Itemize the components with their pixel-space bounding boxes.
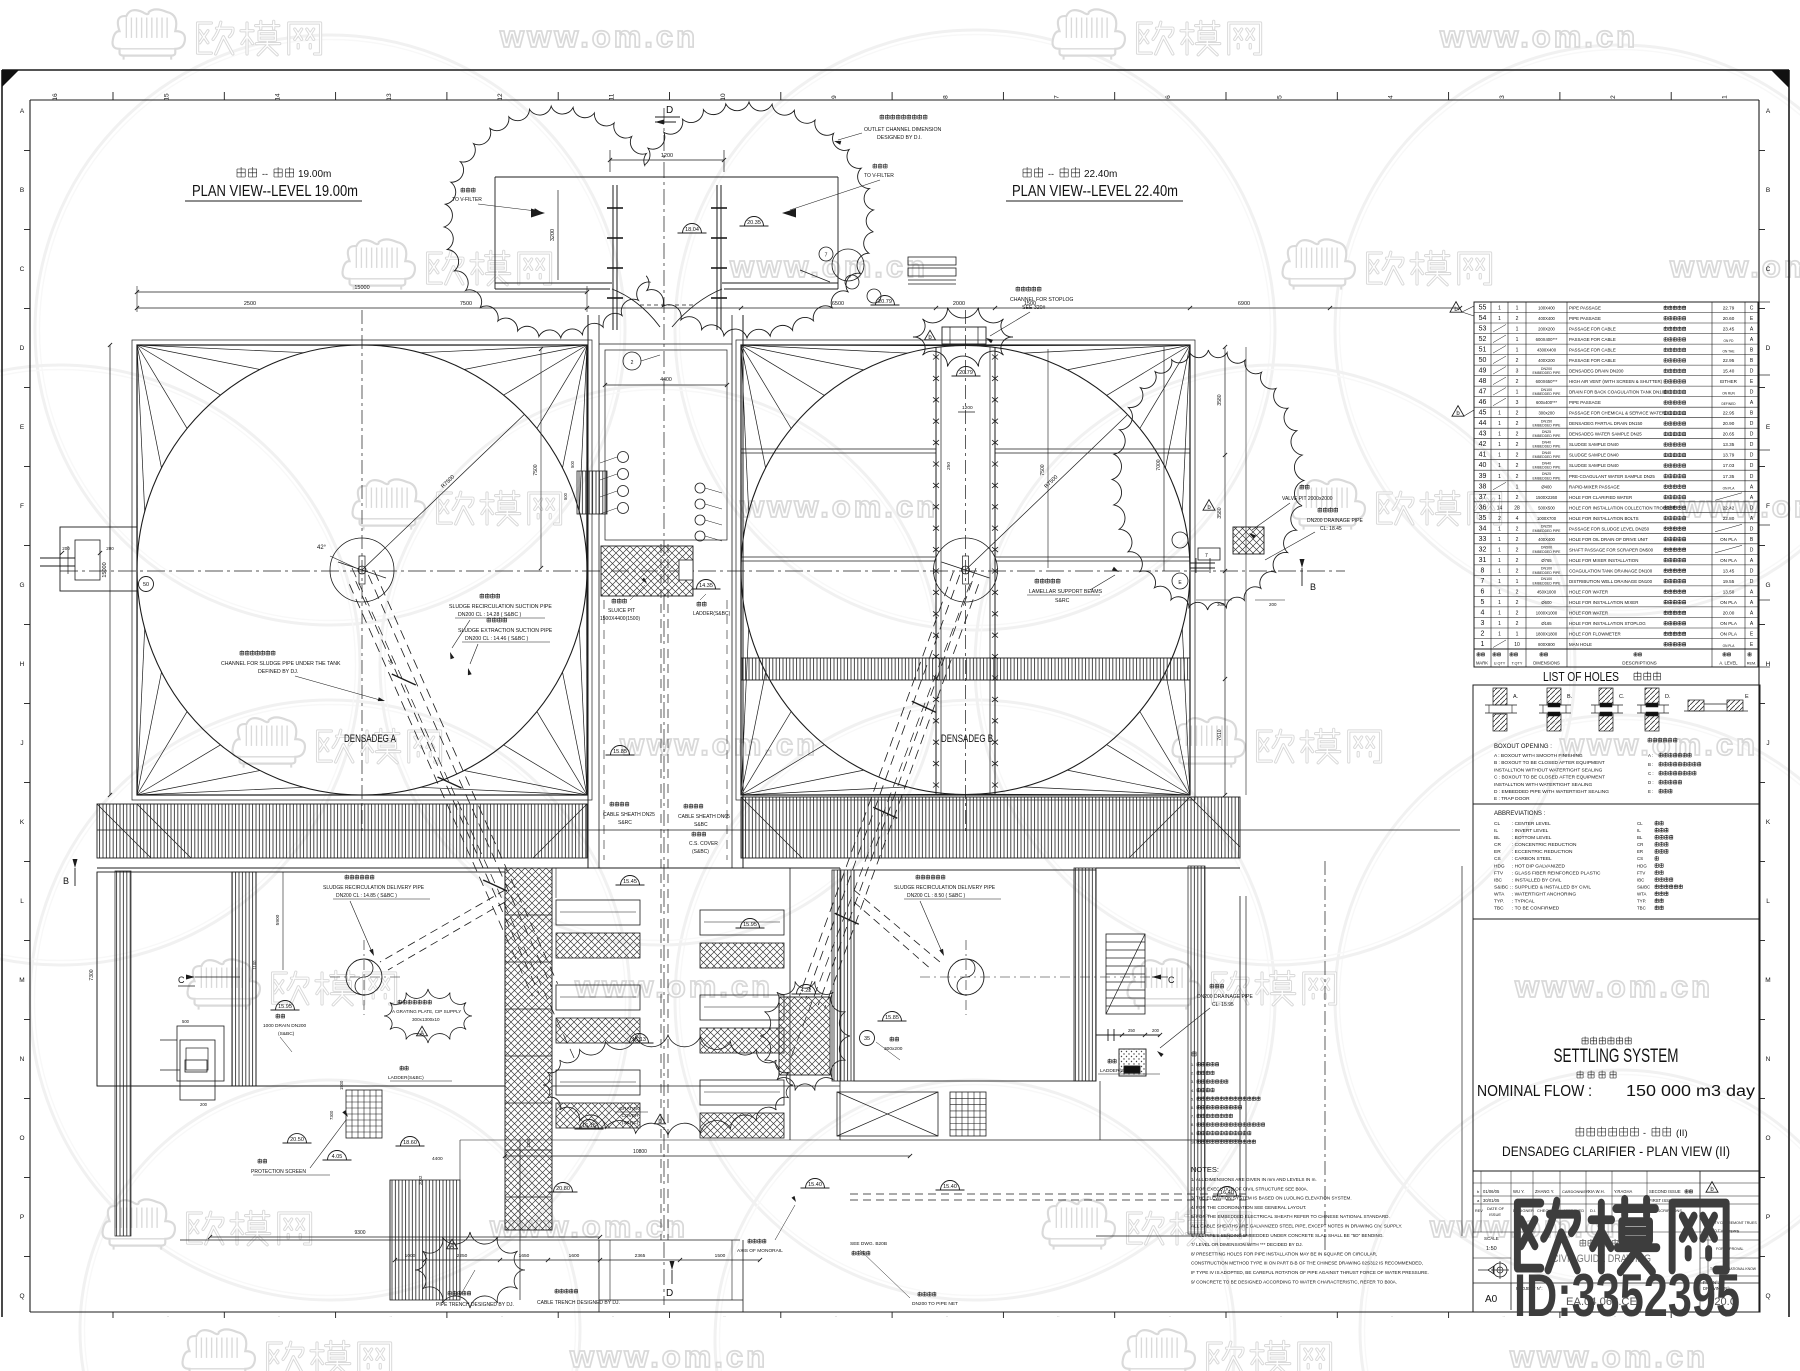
sluice pit label: [600, 578, 647, 623]
svg-text:D.: D.: [1665, 694, 1671, 700]
circled 50 marker: [139, 577, 154, 592]
svg-text:35: 35: [1479, 515, 1487, 522]
svg-text:2: 2: [1516, 411, 1519, 417]
valve pit label: [1249, 484, 1333, 538]
tank B internal channel: [933, 347, 998, 795]
svg-text:5.: 5.: [1191, 1097, 1194, 1101]
svg-text:www.om.cn: www.om.cn: [619, 727, 818, 762]
svg-text:E: E: [20, 424, 25, 431]
svg-text:22.79: 22.79: [1723, 306, 1735, 311]
svg-text:3580: 3580: [1217, 394, 1223, 405]
dn200 to pipe net note: [860, 1250, 958, 1307]
svg-text:1500: 1500: [715, 1253, 726, 1259]
svg-text:C: C: [1766, 266, 1771, 273]
svg-text:..: ..: [1502, 1313, 1504, 1318]
svg-text:16: 16: [52, 93, 59, 101]
svg-text:A. LEVEL: A. LEVEL: [1719, 661, 1738, 666]
svg-text:7/ LEVEL OR DIMENSION WITH **: 7/ LEVEL OR DIMENSION WITH *** DECIDED B…: [1191, 1242, 1303, 1247]
svg-text:REV: REV: [1475, 1209, 1483, 1213]
svg-text:1: 1: [1498, 432, 1501, 438]
svg-text:4/ FOR THE COORDINATION SEE G: 4/ FOR THE COORDINATION SEE GENERAL LAYO…: [1191, 1205, 1306, 1210]
svg-text:7500: 7500: [460, 301, 472, 307]
section markers C: [178, 975, 1175, 987]
svg-text:L: L: [20, 898, 24, 905]
svg-text:C: C: [178, 975, 185, 985]
svg-text:D.I.: D.I.: [1590, 1208, 1596, 1213]
svg-text:CL: CL: [1637, 821, 1643, 826]
central bottom markers: [283, 876, 1242, 1197]
svg-text:2: 2: [1516, 379, 1519, 385]
svg-text:1000X1000: 1000X1000: [1536, 611, 1558, 616]
svg-text:2.: 2.: [1191, 1072, 1194, 1076]
svg-text:13.35: 13.35: [1723, 442, 1735, 447]
dashed pipe into left room: [380, 890, 505, 970]
svg-text:D: D: [666, 105, 673, 116]
svg-text:13.45: 13.45: [1723, 568, 1735, 573]
x-box right: [837, 1092, 938, 1136]
svg-text:1:50: 1:50: [1486, 1246, 1497, 1252]
svg-text:2000: 2000: [953, 301, 965, 307]
svg-text:D: D: [1750, 474, 1754, 480]
svg-text:PASSAGE FOR CABLE: PASSAGE FOR CABLE: [1569, 327, 1616, 332]
top ruler ticks and numbers: [52, 92, 1729, 101]
svg-text:EMBEDDED PIPE: EMBEDDED PIPE: [1533, 392, 1562, 396]
svg-text:20.90: 20.90: [1723, 421, 1735, 426]
right pump room outline: [854, 870, 1096, 1081]
svg-text:INSTALLTION WITH WATERTIGHT SE: INSTALLTION WITH WATERTIGHT SEALING: [1494, 782, 1593, 788]
svg-text:35: 35: [864, 1036, 870, 1042]
svg-text:SECOND ISSUE: SECOND ISSUE: [1649, 1189, 1681, 1194]
svg-text:HDG: HDG: [1494, 863, 1505, 869]
svg-text:500: 500: [570, 460, 575, 468]
svg-text:9/ CONCRETE TO BE DESIGNED AC: 9/ CONCRETE TO BE DESIGNED ACCORDING TO …: [1191, 1279, 1397, 1284]
right pump yin-yang: [920, 940, 1160, 1015]
notes english list: [1191, 1165, 1429, 1284]
pipe trench designed note: [436, 1270, 514, 1308]
svg-text:55: 55: [1479, 305, 1487, 312]
svg-text:14.35: 14.35: [699, 583, 713, 589]
svg-text:15.85: 15.85: [613, 749, 627, 755]
svg-text:ISSUE: ISSUE: [1489, 1212, 1501, 1217]
tank B circle: [741, 346, 1190, 795]
cloud small circles detail: [800, 247, 956, 303]
svg-text:O: O: [19, 1135, 24, 1142]
svg-text:22.95: 22.95: [1723, 358, 1735, 363]
svg-text:PROTECTION SCREEN: PROTECTION SCREEN: [251, 1169, 306, 1175]
marker 15.85 right room: [878, 1012, 907, 1022]
svg-text:150 000 m3 day: 150 000 m3 day: [1626, 1083, 1755, 1100]
svg-text:CARDONNIER: CARDONNIER: [1562, 1189, 1589, 1194]
svg-text:300x1300x10: 300x1300x10: [412, 1017, 440, 1022]
svg-text:U.QTY: U.QTY: [1494, 662, 1506, 666]
tank A sludge pipe dashed bundle: [349, 568, 575, 1060]
svg-text:7500: 7500: [1040, 464, 1046, 475]
svg-text:www.om.cn: www.om.cn: [1439, 19, 1638, 54]
svg-text:: GLASS FIBER REINFORCED PLAS: : GLASS FIBER REINFORCED PLASTIC: [1512, 870, 1601, 876]
svg-text:IL: IL: [1637, 828, 1641, 833]
svg-text:48: 48: [1479, 378, 1487, 385]
dn200 drainage pipe note bottom: [1157, 984, 1254, 1057]
svg-text:ZHANG Y.: ZHANG Y.: [1535, 1189, 1554, 1194]
svg-text:PIPE PASSAGE: PIPE PASSAGE: [1569, 400, 1601, 405]
corner triangle top-left: [2, 70, 19, 87]
svg-text:www.om.cn: www.om.cn: [729, 249, 928, 284]
svg-text:8: 8: [942, 95, 949, 99]
svg-text:ON PLA: ON PLA: [1720, 558, 1738, 563]
svg-text:--: --: [262, 169, 268, 179]
svg-text:ON PLA: ON PLA: [1723, 644, 1736, 648]
svg-text:20.35: 20.35: [747, 220, 761, 226]
corner triangle top-right: [1771, 70, 1789, 88]
svg-text:LIST OF HOLES: LIST OF HOLES: [1543, 670, 1619, 684]
svg-text:: INVERT LEVEL: : INVERT LEVEL: [1512, 828, 1549, 834]
svg-text:DENSADEG WATER SAMPLE DN25: DENSADEG WATER SAMPLE DN25: [1569, 432, 1642, 437]
svg-text:NOMINAL FLOW :: NOMINAL FLOW :: [1477, 1083, 1592, 1100]
svg-text:www.om.cn: www.om.cn: [1509, 1339, 1708, 1371]
svg-text:46: 46: [1479, 399, 1487, 406]
svg-text:42°: 42°: [317, 545, 327, 551]
svg-text:3: 3: [1516, 400, 1519, 406]
svg-text:42: 42: [1479, 441, 1487, 448]
svg-text:300x200: 300x200: [1538, 411, 1555, 416]
svg-text:F: F: [1766, 503, 1770, 510]
svg-text:L: L: [1766, 898, 1770, 905]
svg-text:400X400: 400X400: [1538, 316, 1555, 321]
svg-text:7.: 7.: [1191, 1115, 1194, 1119]
see dwg b20b note: [850, 1241, 887, 1255]
svg-text:30/01/05: 30/01/05: [1483, 1198, 1500, 1203]
svg-text:1: 1: [1516, 337, 1519, 343]
grating cover label: [615, 1106, 666, 1126]
svg-text:B: B: [63, 876, 69, 886]
svg-text:250: 250: [1128, 1028, 1136, 1033]
svg-text:HOLE FOR OIL DRAIN OF DRIVE UN: HOLE FOR OIL DRAIN OF DRIVE UNIT: [1569, 537, 1648, 542]
svg-text:1650: 1650: [519, 1253, 530, 1259]
svg-text:18.04: 18.04: [685, 227, 699, 233]
svg-text:K: K: [1766, 819, 1771, 826]
channel extension walls bottom: [556, 868, 790, 1140]
svg-text:22.42: 22.42: [1723, 505, 1735, 510]
svg-text:LAMELLAR SUPPORT BEAMS: LAMELLAR SUPPORT BEAMS: [1029, 589, 1103, 595]
svg-text:BOXOUT OPENING :: BOXOUT OPENING :: [1494, 744, 1552, 750]
svg-text:1: 1: [1498, 558, 1501, 564]
projection logo: [1478, 1261, 1509, 1279]
svg-text:..: ..: [835, 1313, 837, 1318]
svg-text:TO V-FILTER: TO V-FILTER: [864, 173, 894, 179]
bottom center cloud: [543, 1035, 793, 1135]
triangle marker right cloud: [1203, 500, 1215, 512]
svg-text:4.05: 4.05: [332, 1154, 343, 1160]
svg-text:FOR APPROVAL: FOR APPROVAL: [1716, 1247, 1744, 1251]
left low structure: [160, 1040, 215, 1107]
svg-text:14: 14: [1497, 505, 1503, 511]
svg-text:DIMENSIONS: DIMENSIONS: [1533, 661, 1560, 666]
svg-text:D: D: [1750, 579, 1754, 585]
svg-text:SLUDGE RECIRCULATION SUCTION P: SLUDGE RECIRCULATION SUCTION PIPE: [449, 604, 552, 610]
list of holes caption: [1543, 670, 1661, 684]
svg-text:DENSADEG CLARIFIER - PLAN VI: DENSADEG CLARIFIER - PLAN VIEW (II): [1502, 1144, 1730, 1159]
svg-text:16.15: 16.15: [582, 1123, 596, 1129]
svg-text:37: 37: [1479, 494, 1487, 501]
svg-text:HOLE FOR CLARIFIED WATER: HOLE FOR CLARIFIED WATER: [1569, 495, 1632, 500]
svg-text:J: J: [1766, 740, 1769, 747]
svg-text:13.79: 13.79: [1723, 453, 1735, 458]
svg-text:500X500: 500X500: [1538, 505, 1555, 510]
svg-text:1800X1800: 1800X1800: [1536, 632, 1558, 637]
svg-text:J: J: [20, 740, 23, 747]
svg-text:A :: A :: [1648, 753, 1653, 758]
svg-text:1500: 1500: [1024, 301, 1036, 307]
svg-text:SLUICE PIT: SLUICE PIT: [608, 608, 635, 614]
svg-text:Ø765: Ø765: [1541, 558, 1552, 563]
svg-text:A: A: [450, 1244, 454, 1250]
section marker D top: [655, 105, 680, 125]
svg-text:43: 43: [1479, 431, 1487, 438]
svg-text:..: ..: [389, 1313, 391, 1318]
big id watermark omwang: [1517, 1199, 1726, 1272]
left wall hatch strip: [115, 871, 131, 1236]
svg-text:3580: 3580: [1217, 507, 1223, 518]
svg-text:SHAFT PASSAGE FOR SCRAPER DN50: SHAFT PASSAGE FOR SCRAPER DN500: [1569, 547, 1654, 552]
svg-text:20.60: 20.60: [1723, 316, 1735, 321]
svg-text:2: 2: [1516, 474, 1519, 480]
svg-text:EMBEDDED PIPE: EMBEDDED PIPE: [1533, 571, 1562, 575]
tank B square: [736, 340, 1195, 800]
svg-text:10.: 10.: [1191, 1140, 1196, 1144]
svg-text:C: C: [20, 266, 25, 273]
svg-text:1: 1: [1498, 568, 1501, 574]
svg-text:..: ..: [1057, 1313, 1059, 1318]
dashed pipe into right room: [854, 890, 940, 970]
svg-text:..: ..: [612, 1313, 614, 1318]
svg-text:www.om.cn: www.om.cn: [1679, 489, 1800, 524]
svg-text:3200: 3200: [550, 229, 556, 241]
svg-text:H: H: [20, 661, 25, 668]
channel pipe circles right cluster: [695, 483, 722, 541]
revision table: [1473, 1171, 1760, 1232]
svg-text:C: C: [1168, 975, 1175, 985]
top revision cloud: [444, 102, 873, 338]
svg-text:15.40: 15.40: [808, 1182, 822, 1188]
svg-text:www.om.cn: www.om.cn: [1559, 727, 1758, 762]
tank A center axes: [361, 310, 363, 835]
svg-text:34: 34: [1479, 525, 1487, 532]
svg-text:: TYPICAL: : TYPICAL: [1512, 899, 1535, 905]
svg-text:www.om.cn: www.om.cn: [574, 969, 773, 1004]
svg-text:PASSAGE FOR CHEMICAL & SERVICE: PASSAGE FOR CHEMICAL & SERVICE WATER: [1569, 411, 1665, 416]
svg-text:ABBREVIATIONS :: ABBREVIATIONS :: [1494, 811, 1546, 817]
black flow arrow left: [531, 209, 545, 218]
table header row: [1474, 652, 1758, 667]
svg-text:19.55: 19.55: [1723, 579, 1735, 584]
svg-text:2/ FOR EXECUTION OF CIVIL STR: 2/ FOR EXECUTION OF CIVIL STRUCTURE SEE …: [1191, 1186, 1308, 1191]
svg-text:ON FD: ON FD: [1724, 339, 1735, 343]
svg-text:M: M: [19, 977, 24, 984]
bottom dim row: [393, 1253, 762, 1262]
svg-text:2: 2: [1516, 600, 1519, 606]
channel top box and dim 4400: [603, 350, 729, 540]
svg-text:D :: D :: [1648, 780, 1654, 785]
svg-text:15: 15: [163, 93, 170, 101]
svg-text:: BOTTOM LEVEL: : BOTTOM LEVEL: [1512, 835, 1552, 841]
svg-text:XIA W.H.: XIA W.H.: [1588, 1189, 1605, 1194]
svg-text:HOLE FOR WATER: HOLE FOR WATER: [1569, 589, 1608, 594]
dim 7300 left: [89, 872, 97, 1086]
svg-text:DESIGNED BY D.I.: DESIGNED BY D.I.: [877, 135, 922, 141]
svg-text:450X1000: 450X1000: [1537, 589, 1557, 594]
svg-text:WTA: WTA: [1494, 892, 1505, 898]
abbreviations text: [1494, 811, 1682, 912]
left comb bars: [556, 900, 640, 1128]
svg-text:(S&BC): (S&BC): [692, 849, 709, 855]
svg-text:6: 6: [1481, 588, 1485, 595]
long horizontal wall lines: [97, 830, 1460, 868]
axis of monorail note: [737, 1196, 796, 1254]
right wall hatch strip: [1188, 866, 1205, 1234]
svg-text:CHANNEL FOR SLUDGE PIPE UNDER: CHANNEL FOR SLUDGE PIPE UNDER THE TANK: [221, 661, 341, 667]
svg-text:15.95: 15.95: [743, 922, 757, 928]
svg-text:DN200 CL : 14.85 ( S&BC ): DN200 CL : 14.85 ( S&BC ): [336, 893, 397, 899]
svg-text:8: 8: [1481, 567, 1485, 574]
svg-text:B: B: [1766, 187, 1770, 194]
svg-text:47: 47: [1479, 389, 1487, 396]
svg-text:22.95: 22.95: [1723, 411, 1735, 416]
boxout symbols row: [1485, 688, 1749, 731]
svg-text:HOLE FOR FLOWMETER: HOLE FOR FLOWMETER: [1569, 632, 1621, 637]
svg-text:1500X2260: 1500X2260: [1536, 495, 1558, 500]
svg-text:4.22: 4.22: [801, 988, 812, 994]
svg-text:HOLE FOR INSTALLATION MIXER: HOLE FOR INSTALLATION MIXER: [1569, 600, 1638, 605]
svg-text:2: 2: [1516, 358, 1519, 364]
svg-text:-: -: [1643, 1128, 1646, 1138]
central channel walls: [588, 315, 743, 868]
ladder label and 14.35: [692, 580, 731, 618]
left room dims: [252, 872, 283, 970]
svg-text:2: 2: [1516, 611, 1519, 617]
1000 drain label: [263, 1014, 307, 1052]
svg-text:9: 9: [831, 95, 838, 99]
svg-text:..: ..: [1391, 1313, 1393, 1318]
svg-text:S&IBC :: S&IBC :: [1494, 885, 1511, 891]
company cells: [1700, 1171, 1760, 1310]
left ruler letters: [19, 108, 30, 1300]
list of holes table content: [1479, 305, 1754, 649]
svg-text:1: 1: [1516, 579, 1519, 585]
svg-text:: INSTALLED BY CIVIL: : INSTALLED BY CIVIL: [1512, 877, 1562, 883]
svg-text:CABLE SHEATH DN65: CABLE SHEATH DN65: [678, 814, 730, 820]
svg-text:OUTLET CHANNEL DIMENSION: OUTLET CHANNEL DIMENSION: [864, 127, 942, 133]
bottom small dims left: [329, 1080, 531, 1185]
civil guide cell: [1552, 1239, 1651, 1265]
svg-text:10: 10: [720, 93, 727, 101]
svg-text:4400: 4400: [660, 377, 672, 383]
svg-text:20.50: 20.50: [290, 1137, 304, 1143]
right revision cloud: [1112, 350, 1304, 610]
bottom title row: [1473, 1283, 1760, 1310]
stipple pad: [1119, 1049, 1146, 1076]
svg-text:41: 41: [1479, 452, 1487, 459]
bottom dim 10800: [503, 1149, 912, 1158]
svg-text:--: --: [1048, 169, 1054, 179]
svg-text:200: 200: [200, 1102, 208, 1107]
plan view level 19 title: [185, 167, 362, 201]
svg-text:RAPID-MIXER PASSAGE: RAPID-MIXER PASSAGE: [1569, 484, 1620, 489]
svg-text:EMBEDDED PIPE: EMBEDDED PIPE: [1533, 581, 1562, 585]
svg-text:EMBEDDED PIPE: EMBEDDED PIPE: [1533, 434, 1562, 438]
tank B mid walkway band: [741, 658, 1190, 680]
svg-text:B.: B.: [1567, 694, 1573, 700]
svg-text:2: 2: [1516, 621, 1519, 627]
svg-text:15.45: 15.45: [623, 879, 637, 885]
black flow arrow right: [782, 209, 796, 218]
tank B center mechanism: [934, 538, 998, 602]
svg-text:..: ..: [167, 1313, 169, 1318]
svg-text:ALL CABLE SHEATHS ARE GALVANIZ: ALL CABLE SHEATHS ARE GALVANIZED STEEL P…: [1191, 1224, 1402, 1229]
svg-text:: CONCENTRIC REDUCTION: : CONCENTRIC REDUCTION: [1512, 842, 1577, 848]
svg-text:1200: 1200: [661, 153, 673, 159]
svg-text:ER: ER: [1494, 849, 1501, 855]
svg-text:A0: A0: [1485, 1294, 1498, 1305]
svg-text:ER: ER: [1637, 849, 1643, 854]
svg-text:CR: CR: [1637, 842, 1643, 847]
svg-text:D: D: [1750, 442, 1754, 448]
svg-text:D: D: [1750, 463, 1754, 469]
svg-text:BL: BL: [1494, 835, 1500, 841]
svg-text:2365: 2365: [635, 1253, 646, 1259]
svg-text:SLUDGE RECIRCULATION DELIVERY: SLUDGE RECIRCULATION DELIVERY PIPE: [894, 885, 996, 891]
svg-text:..: ..: [278, 1313, 280, 1318]
svg-text:B: B: [1310, 582, 1316, 592]
svg-text:DN200 CL : 8.50 ( S&BC ): DN200 CL : 8.50 ( S&BC ): [907, 893, 966, 899]
svg-text:HOLE FOR INSTALLATION COLLECTI: HOLE FOR INSTALLATION COLLECTION TROUGHT: [1569, 505, 1676, 510]
svg-text:15.40: 15.40: [943, 1184, 957, 1190]
svg-text:DENSADEG B: DENSADEG B: [941, 733, 993, 745]
svg-text:DN200 CL : 14.46 ( S&BC ): DN200 CL : 14.46 ( S&BC ): [465, 636, 529, 642]
walkway band below tank A: [97, 804, 587, 858]
svg-text:B :: B :: [1648, 762, 1653, 767]
svg-text:DENSADEG PARTIAL DRAIN DN150: DENSADEG PARTIAL DRAIN DN150: [1569, 421, 1643, 426]
svg-text:22.80: 22.80: [1723, 516, 1735, 521]
svg-text:2: 2: [1516, 421, 1519, 427]
svg-text:01/06/05: 01/06/05: [1483, 1189, 1500, 1194]
svg-text:PASSAGE FOR SLUDGE LEVEL DN250: PASSAGE FOR SLUDGE LEVEL DN250: [1569, 526, 1650, 531]
svg-text:3: 3: [1499, 95, 1506, 99]
svg-text:SEE DWG. B20B: SEE DWG. B20B: [850, 1241, 887, 1247]
svg-text:250: 250: [946, 462, 952, 470]
svg-text:ON PLA: ON PLA: [1720, 600, 1738, 605]
svg-text:LADDER(S&BC): LADDER(S&BC): [388, 1075, 424, 1081]
svg-text:20.00: 20.00: [1723, 611, 1735, 616]
svg-text:D : EMBEDDED PIPE WITH WATERTI: D : EMBEDDED PIPE WITH WATERTIGHT SEALIN…: [1494, 789, 1609, 795]
svg-text:EMBEDDED PIPE: EMBEDDED PIPE: [1533, 371, 1562, 375]
svg-text:1: 1: [1516, 390, 1519, 396]
channel for sludge pipe note: [221, 650, 385, 701]
svg-text:15.95: 15.95: [278, 1004, 292, 1010]
svg-text:100X400: 100X400: [1538, 306, 1555, 311]
svg-text:C :: C :: [1648, 771, 1654, 776]
svg-text:SLUDGE SAMPLE DN40: SLUDGE SAMPLE DN40: [1569, 463, 1619, 468]
svg-text:EMBEDDED PIPE: EMBEDDED PIPE: [1533, 424, 1562, 428]
svg-text:39: 39: [1479, 473, 1487, 480]
svg-text:..: ..: [1169, 1313, 1171, 1318]
svg-text:300x200: 300x200: [884, 1046, 903, 1052]
svg-text:7: 7: [1481, 578, 1485, 585]
svg-text:DATE OF: DATE OF: [1487, 1206, 1505, 1211]
svg-text:9.: 9.: [1191, 1132, 1194, 1136]
svg-text:A: A: [1766, 108, 1771, 115]
central channel centerline: [663, 108, 665, 1305]
svg-text:1: 1: [1498, 411, 1501, 417]
